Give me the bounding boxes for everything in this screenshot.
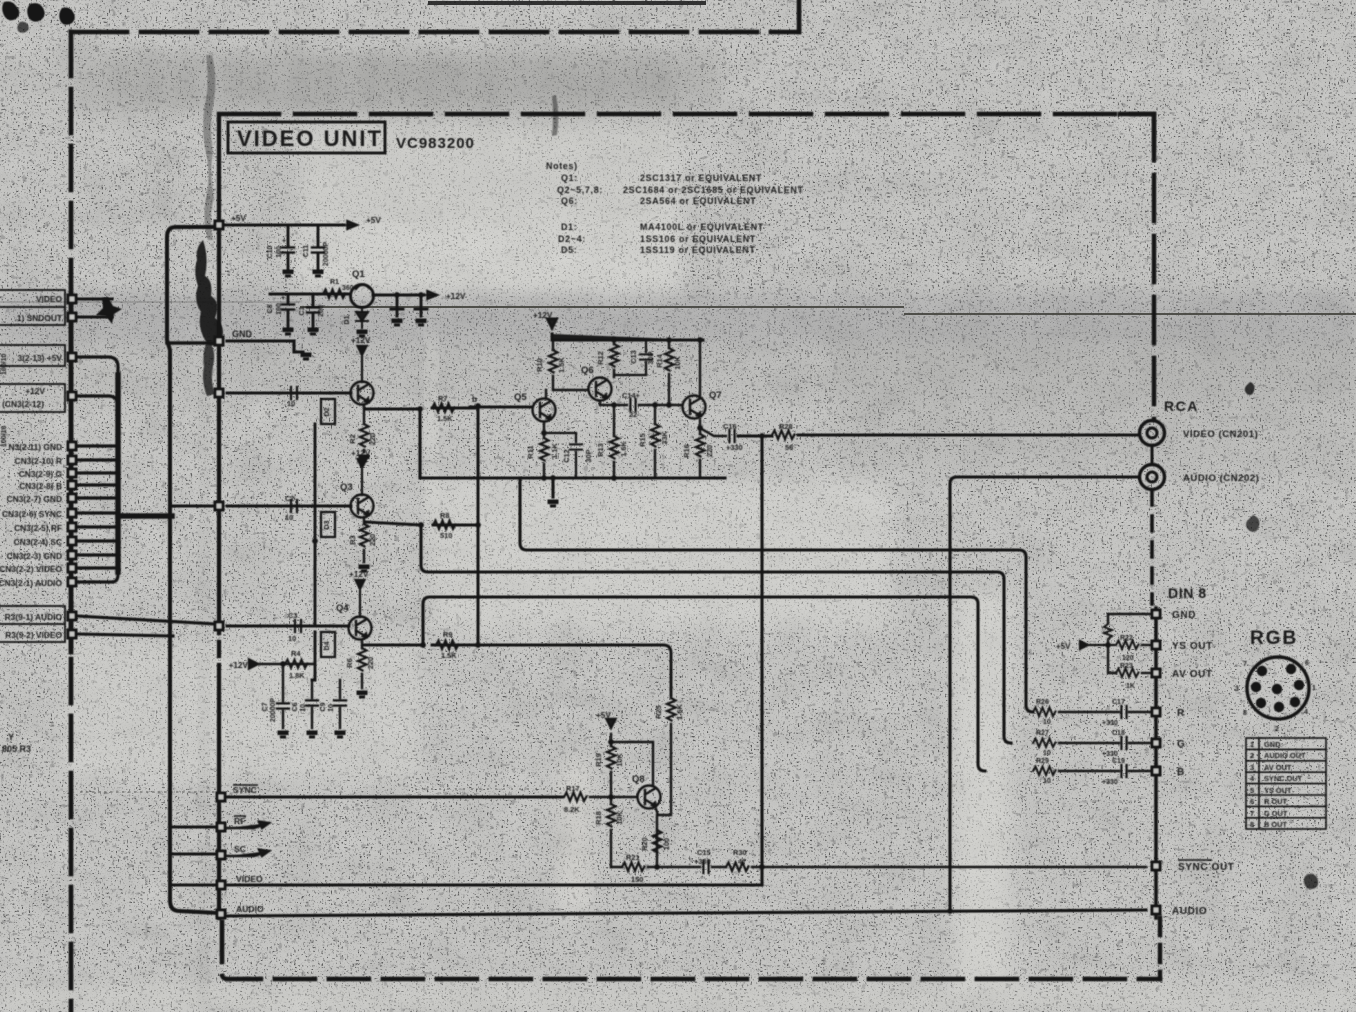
svg-text:C18: C18 xyxy=(1112,730,1125,737)
svg-text:1.1K: 1.1K xyxy=(550,443,559,459)
svg-text:B: B xyxy=(1177,767,1185,778)
resistor R8 xyxy=(433,521,456,530)
wire video riser xyxy=(760,436,763,885)
svg-text:R17: R17 xyxy=(566,784,580,793)
svg-text:R20: R20 xyxy=(640,837,649,851)
svg-text:D3: D3 xyxy=(324,520,331,529)
svg-text:RCA: RCA xyxy=(1164,398,1199,414)
svg-text:R OUT: R OUT xyxy=(1264,797,1287,806)
svg-text:8: 8 xyxy=(1243,710,1247,717)
svg-text:C12: C12 xyxy=(562,449,571,463)
ground R2 xyxy=(359,455,370,463)
svg-text:R30: R30 xyxy=(733,848,747,857)
svg-text:VIDEO (CN201): VIDEO (CN201) xyxy=(1183,429,1258,440)
svg-text:+330: +330 xyxy=(1102,779,1118,786)
capacitor C15 xyxy=(703,861,708,873)
svg-text:.1) SNDOUT: .1) SNDOUT xyxy=(15,313,63,323)
wire video line xyxy=(738,435,1139,436)
resistor R28 xyxy=(772,431,795,440)
svg-text:+5V: +5V xyxy=(596,711,611,720)
svg-text:R29: R29 xyxy=(1036,758,1049,765)
transistor Q6 xyxy=(589,378,612,401)
svg-text:VIDEO: VIDEO xyxy=(236,874,263,884)
svg-text:D1:: D1: xyxy=(561,222,577,232)
junction xyxy=(280,661,286,667)
svg-text:1K: 1K xyxy=(1126,683,1135,690)
svg-text:1SS106 or EQUIVALENT: 1SS106 or EQUIVALENT xyxy=(640,234,756,244)
svg-text:R19: R19 xyxy=(594,753,603,767)
resistor R11 xyxy=(543,422,545,478)
wire GND2 harness xyxy=(78,496,118,499)
svg-text:R26: R26 xyxy=(1036,699,1049,706)
junction xyxy=(418,292,424,298)
svg-text:+330: +330 xyxy=(726,443,743,452)
transistor Q5 xyxy=(533,399,556,422)
svg-text:R13: R13 xyxy=(596,443,605,457)
outer dashed border xyxy=(71,0,799,1012)
diode box D4 xyxy=(321,632,335,657)
wire stub VIDEO in xyxy=(78,297,112,300)
junction xyxy=(418,522,424,528)
junction xyxy=(654,864,660,870)
ground R3 xyxy=(359,565,370,573)
junction xyxy=(420,642,426,648)
svg-text:220: 220 xyxy=(368,433,377,445)
capacitor C9 stub xyxy=(339,680,341,728)
svg-text:SYNC OUT: SYNC OUT xyxy=(1178,862,1234,873)
wire diode bus xyxy=(312,424,315,680)
power rail labels xyxy=(231,214,466,339)
resistor R3 xyxy=(363,519,365,562)
star blob xyxy=(96,297,122,324)
svg-text:1.5K: 1.5K xyxy=(437,414,453,423)
svg-text:AV OUT: AV OUT xyxy=(1172,669,1213,680)
svg-text:C19: C19 xyxy=(1112,758,1125,765)
svg-text:VIDEO: VIDEO xyxy=(36,294,63,304)
ground C9 xyxy=(335,731,346,739)
resistor R23 xyxy=(1116,669,1139,678)
svg-text:R4: R4 xyxy=(291,649,301,658)
wire R26 to C17 xyxy=(1059,711,1150,713)
wire base row xyxy=(270,293,350,296)
ground C10 xyxy=(283,270,294,278)
svg-text:R10: R10 xyxy=(535,358,544,372)
ink blobs / crease scribble xyxy=(96,55,1318,889)
svg-text:10: 10 xyxy=(300,704,307,712)
din pad G xyxy=(1151,738,1162,749)
rca jack VIDEO CN201 xyxy=(1140,421,1165,446)
resistor R7 xyxy=(432,404,455,413)
node GND xyxy=(214,336,225,347)
svg-text:100: 100 xyxy=(662,838,671,850)
svg-text:7: 7 xyxy=(1243,661,1247,668)
wire rail xyxy=(420,409,725,478)
junction audio xyxy=(947,908,953,914)
node RF xyxy=(216,822,227,833)
wire audio row xyxy=(227,910,1146,916)
capacitor C14 xyxy=(630,399,635,411)
node SC xyxy=(216,850,227,861)
junction riser xyxy=(759,864,765,870)
notes xyxy=(546,161,804,255)
din pad GND xyxy=(1151,609,1162,620)
resistor R10 xyxy=(552,340,554,388)
svg-text:510: 510 xyxy=(440,531,452,540)
cut-off sheet border top xyxy=(428,1,706,5)
svg-text:R2: R2 xyxy=(348,434,357,443)
svg-text:4: 4 xyxy=(1304,709,1308,716)
svg-text:YS OUT: YS OUT xyxy=(1172,641,1213,652)
svg-text:Notes): Notes) xyxy=(546,161,578,171)
wire bus to trunk xyxy=(170,505,216,508)
svg-text:CN3(2-3) GND: CN3(2-3) GND xyxy=(7,551,62,561)
wire collector link xyxy=(611,742,653,786)
svg-text:2SC1317 or EQUIVALENT: 2SC1317 or EQUIVALENT xyxy=(640,173,762,183)
svg-text:RF: RF xyxy=(234,816,245,826)
svg-text:Q6: Q6 xyxy=(581,365,594,376)
svg-text:220: 220 xyxy=(366,657,375,669)
svg-text:C16: C16 xyxy=(723,422,737,431)
svg-text:AV OUT: AV OUT xyxy=(1264,763,1292,772)
diode box D3 xyxy=(321,512,335,537)
wire base row Q4 xyxy=(227,625,349,628)
svg-text:CN3(2-9) G: CN3(2-9) G xyxy=(19,469,62,479)
capacitor C10 xyxy=(287,225,290,268)
wire gnd node link xyxy=(167,341,219,344)
wire G harness xyxy=(78,471,118,474)
svg-text:C11: C11 xyxy=(303,245,310,258)
svg-text:R1: R1 xyxy=(330,279,339,286)
resistor R1 xyxy=(323,290,346,299)
wire trunk b xyxy=(477,406,480,645)
wire sc stub xyxy=(170,852,217,855)
harness rail xyxy=(115,375,121,572)
svg-text:+330: +330 xyxy=(1102,751,1118,758)
pads left column xyxy=(67,294,78,305)
svg-text:Q3: Q3 xyxy=(340,482,353,493)
svg-text:R7: R7 xyxy=(438,394,447,403)
svg-text:120: 120 xyxy=(1122,655,1134,662)
junction xyxy=(1105,642,1111,648)
wire R22 to pad xyxy=(1142,644,1150,646)
din trunk xyxy=(1154,608,1158,918)
arrow +12V xyxy=(424,291,438,300)
wire B bus xyxy=(423,597,985,771)
svg-text:5: 5 xyxy=(1250,786,1254,795)
svg-text:30P: 30P xyxy=(584,449,593,462)
capacitor C18 xyxy=(1121,737,1126,749)
svg-text:+5V: +5V xyxy=(231,214,246,223)
resistor R12 xyxy=(613,340,615,377)
svg-text:10: 10 xyxy=(328,704,335,712)
wire SC arrow xyxy=(227,850,269,857)
wire AUDIO R39 row xyxy=(78,616,215,624)
node VIDEO xyxy=(216,880,227,891)
svg-text:R14: R14 xyxy=(655,353,664,367)
svg-text:DIN 8: DIN 8 xyxy=(1168,585,1207,601)
svg-text:Q6:: Q6: xyxy=(561,196,578,206)
svg-text:Y: Y xyxy=(8,732,14,742)
resistor R27 xyxy=(1033,739,1056,748)
inner boundary top xyxy=(219,112,1154,116)
connector cell boxes xyxy=(0,290,65,642)
junction video riser xyxy=(759,433,765,439)
svg-text:+330: +330 xyxy=(1102,720,1118,727)
wire R bus xyxy=(520,478,1033,712)
junction trunk xyxy=(475,642,481,648)
svg-text:1.6K: 1.6K xyxy=(675,704,684,720)
coil gnd xyxy=(1104,624,1112,639)
svg-text:C6: C6 xyxy=(292,702,299,711)
svg-text:AUDIO (CN202): AUDIO (CN202) xyxy=(1183,473,1259,484)
resistor R22 xyxy=(1116,641,1139,650)
Q4 stage labels xyxy=(229,570,458,722)
diode box D2 xyxy=(321,399,335,424)
svg-text:SYNC: SYNC xyxy=(233,785,257,795)
resistor R17 xyxy=(564,793,587,802)
svg-text:+5V: +5V xyxy=(366,216,381,225)
svg-text:R11: R11 xyxy=(526,445,535,458)
capacitor C19 xyxy=(1121,765,1126,777)
wire audio riser xyxy=(950,477,1139,911)
Q3 stage labels xyxy=(285,449,452,546)
svg-text:6: 6 xyxy=(1250,797,1254,806)
capacitor C11 xyxy=(317,225,320,268)
svg-text:47: 47 xyxy=(738,857,746,866)
rotated cap labels top xyxy=(267,238,351,324)
node +5V xyxy=(214,220,225,231)
svg-text:R22: R22 xyxy=(1120,635,1133,642)
resistor R9 xyxy=(436,641,459,650)
left connector labels xyxy=(0,294,63,640)
wire R17 to base xyxy=(590,796,636,798)
wire +12V drop Q4 xyxy=(356,580,365,617)
border left xyxy=(69,32,74,1012)
wire emitter row Q3 xyxy=(366,522,475,525)
inner boundary bottom xyxy=(222,922,1160,979)
svg-text:100: 100 xyxy=(276,303,283,315)
din pad YS OUT xyxy=(1151,640,1162,651)
svg-text:CN3(2-2) VIDEO: CN3(2-2) VIDEO xyxy=(0,564,62,574)
resistor R20 xyxy=(653,830,662,853)
wire +12V feed amp xyxy=(548,319,704,340)
svg-text:Q7: Q7 xyxy=(709,390,722,401)
svg-text:1.5K: 1.5K xyxy=(441,651,457,660)
wire R27 to C18 xyxy=(1059,742,1150,744)
transistor Q3 xyxy=(351,495,374,518)
resistor R26 xyxy=(1033,708,1056,717)
capacitor C1 xyxy=(312,294,315,326)
resistor R4 xyxy=(285,660,308,669)
resistor R21 xyxy=(622,863,645,872)
wire R29 to C19 xyxy=(1059,770,1150,772)
svg-text:2: 2 xyxy=(1275,726,1279,733)
svg-text:C7: C7 xyxy=(262,702,269,711)
bottom node labels xyxy=(233,785,264,914)
wire sync row xyxy=(227,796,562,799)
svg-text:1.5K: 1.5K xyxy=(557,357,566,373)
svg-text:+12V: +12V xyxy=(25,386,45,396)
resistor R16 xyxy=(699,420,701,478)
rgb circle xyxy=(1247,657,1309,719)
left pad column solid line xyxy=(69,294,74,652)
wire Q6 emitter row xyxy=(600,402,681,405)
svg-text:220: 220 xyxy=(368,534,377,546)
svg-text:MA4100L or EQUIVALENT: MA4100L or EQUIVALENT xyxy=(640,222,764,232)
svg-text:R28: R28 xyxy=(779,422,793,431)
wire Q8 emitter xyxy=(656,809,658,864)
resistor R25 drop xyxy=(658,695,671,815)
svg-text:1: 1 xyxy=(1312,685,1316,692)
wire RF harness xyxy=(78,525,118,528)
svg-text:30P: 30P xyxy=(646,351,655,364)
svg-text:R: R xyxy=(1177,708,1185,719)
svg-text:Q1:: Q1: xyxy=(561,173,578,183)
wire R23 to pad xyxy=(1142,672,1150,674)
capacitor C16 xyxy=(729,430,734,442)
ground C11 xyxy=(313,270,324,278)
wire video stub xyxy=(170,883,217,886)
junction trunk xyxy=(475,522,481,528)
node Q4 row xyxy=(214,621,225,632)
wire +12V feed R4 xyxy=(249,660,315,669)
svg-text:100/10: 100/10 xyxy=(1,353,8,375)
svg-text:C13: C13 xyxy=(629,350,638,364)
svg-text:1.8K: 1.8K xyxy=(289,671,305,680)
diode D1 xyxy=(356,307,368,328)
wire base row Q3 xyxy=(227,505,351,508)
svg-text:1: 1 xyxy=(1250,740,1254,749)
top edge artifacts xyxy=(2,2,75,33)
capacitor C17 xyxy=(1121,706,1126,718)
svg-text:2SC1684 or 2SC1685 or EQUIVALE: 2SC1684 or 2SC1685 or EQUIVALENT xyxy=(623,185,804,195)
svg-text:2: 2 xyxy=(1250,751,1254,760)
svg-text:R27: R27 xyxy=(1036,730,1049,737)
svg-text:D2~4:: D2~4: xyxy=(558,234,586,244)
transistor Q1 xyxy=(351,285,374,308)
rca jack AUDIO CN202 xyxy=(1140,465,1165,490)
resistor R29 xyxy=(1033,767,1056,776)
svg-text:360: 360 xyxy=(342,285,354,292)
din trunk lower dash xyxy=(1158,918,1162,979)
transistor Q4 xyxy=(349,617,372,640)
node AUDIO xyxy=(216,909,227,920)
svg-text:2SA564 or EQUIVALENT: 2SA564 or EQUIVALENT xyxy=(640,196,756,206)
svg-text:Q4: Q4 xyxy=(336,603,349,614)
junction xyxy=(611,337,617,343)
wire drop to R23 xyxy=(1108,645,1116,673)
wire RF arrow xyxy=(227,822,269,829)
top band streaks xyxy=(100,55,660,225)
Q2 stage labels xyxy=(287,336,477,445)
svg-text:VC983200: VC983200 xyxy=(396,135,475,152)
svg-text:Q1: Q1 xyxy=(352,269,365,280)
wire gnd loop xyxy=(1108,614,1150,645)
svg-text:CN3(2-8) B: CN3(2-8) B xyxy=(19,481,62,491)
capacitor C5 stub xyxy=(415,295,427,316)
wire sync out row xyxy=(611,866,1146,868)
junction base node xyxy=(608,794,614,800)
svg-text:C14+: C14+ xyxy=(622,391,641,400)
resistor R6 xyxy=(361,641,363,688)
trunk gnd left xyxy=(167,227,219,913)
capacitor C4 stub xyxy=(391,295,403,316)
wire +12V drop Q2 xyxy=(358,346,367,382)
inner boundary right xyxy=(1152,114,1156,420)
arrow +5V xyxy=(344,221,358,230)
svg-text:+12V: +12V xyxy=(351,449,371,458)
svg-text:8.2K: 8.2K xyxy=(564,805,580,814)
svg-text:+: + xyxy=(282,238,286,245)
svg-text:Q8: Q8 xyxy=(632,774,645,785)
junction xyxy=(312,538,318,544)
wire +5V feed Q8 xyxy=(607,719,616,745)
wire video row xyxy=(227,883,762,886)
wire gnd right jog xyxy=(227,341,303,352)
resistor R2 xyxy=(363,406,365,452)
wire Q7 emitter to video line xyxy=(700,428,726,436)
resistor R18 xyxy=(610,797,612,867)
svg-text:AUDIO OUT: AUDIO OUT xyxy=(1264,751,1306,760)
svg-text:220: 220 xyxy=(705,445,714,457)
trunk main (node rail) xyxy=(217,118,221,918)
svg-text:33K: 33K xyxy=(660,431,669,445)
ground C8 xyxy=(283,328,294,336)
junction node b xyxy=(475,403,481,409)
svg-text:AUDIO: AUDIO xyxy=(1172,906,1207,917)
capacitor C12 loop xyxy=(544,433,576,478)
svg-text:RGB: RGB xyxy=(1250,628,1298,649)
wire +12V out rail xyxy=(373,294,424,297)
border top xyxy=(71,30,799,35)
transistor Q7 xyxy=(683,396,706,419)
svg-text:+330: +330 xyxy=(694,857,711,866)
wire base row Q2 xyxy=(227,392,351,395)
wire GND harness xyxy=(78,444,118,447)
crease scribble left-centre xyxy=(203,55,215,240)
svg-text:R16: R16 xyxy=(682,444,691,458)
svg-text:10: 10 xyxy=(288,634,296,643)
ground R6 xyxy=(357,691,368,699)
svg-text:10K: 10K xyxy=(673,356,682,370)
svg-text:100: 100 xyxy=(276,246,283,258)
din pad R xyxy=(1151,707,1162,718)
svg-text:SC: SC xyxy=(234,844,246,854)
ground C1 xyxy=(308,328,319,336)
ground C6 xyxy=(307,731,318,739)
ground rail stub xyxy=(551,478,554,497)
wire SC harness xyxy=(78,539,118,542)
rgb pin dots xyxy=(1257,666,1267,676)
wire R harness xyxy=(78,458,118,461)
capacitor C7 xyxy=(282,664,284,728)
svg-text:3: 3 xyxy=(1235,686,1239,693)
svg-text:b: b xyxy=(472,394,477,404)
svg-text:R8: R8 xyxy=(440,511,449,520)
wire Q5 collector / Q6 base xyxy=(546,390,587,398)
wire VIDEO R39 row xyxy=(78,634,173,636)
svg-text:CN3(2-10) R: CN3(2-10) R xyxy=(15,456,62,466)
svg-text:C9: C9 xyxy=(320,702,327,711)
wire B harness xyxy=(78,483,118,486)
svg-text:R3(9-1) AUDIO: R3(9-1) AUDIO xyxy=(5,612,63,622)
svg-text:CN3(2-7) GND: CN3(2-7) GND xyxy=(7,494,62,504)
svg-text:YS OUT: YS OUT xyxy=(1264,786,1292,795)
svg-text:GND: GND xyxy=(1172,610,1196,621)
svg-text:10K: 10K xyxy=(615,753,624,767)
wire +12V drop Q3 xyxy=(358,459,367,495)
wire rca trunk xyxy=(1151,446,1154,464)
